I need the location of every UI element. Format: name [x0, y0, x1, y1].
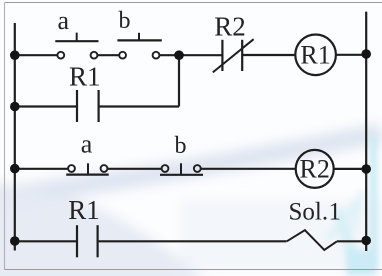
- solenoid Sol.1 (zigzag): [287, 230, 337, 250]
- node: left rail branch: [10, 102, 20, 112]
- svg-text:a: a: [81, 129, 93, 158]
- wire rung2: contact a to contact b: [108, 168, 162, 170]
- wire rung3: contact R1 to solenoid: [98, 240, 287, 242]
- svg-text:R1: R1: [69, 61, 101, 91]
- node: left rail rung3: [10, 236, 20, 246]
- relay contact R1 (NO) on branch: [77, 90, 99, 122]
- node: left rail rung1: [10, 50, 20, 60]
- svg-text:R2: R2: [300, 155, 330, 184]
- wire rung2: contact b to coil R2: [201, 168, 295, 170]
- node: right rail rung3: [361, 236, 371, 246]
- wire rung1: coil R1 to right rail: [336, 54, 366, 56]
- pushbutton contact b (NO): [117, 33, 161, 59]
- wire branch: contact R1 to junction drop: [99, 105, 179, 107]
- svg-text:a: a: [58, 6, 70, 35]
- svg-text:R2: R2: [214, 11, 246, 41]
- svg-text:R1: R1: [300, 41, 330, 70]
- pushbutton contact a (NO): [55, 33, 98, 59]
- wire rung3: left rail to contact R1: [15, 240, 77, 242]
- node: rung1 branch junction: [174, 50, 184, 60]
- wire rung1: R2 contact to coil R1: [242, 54, 295, 56]
- right power rail: [365, 12, 367, 251]
- wire rung2: coil R2 to right rail: [334, 168, 366, 170]
- wire rung2: left rail to contact a: [15, 168, 68, 170]
- svg-text:Sol.: Sol.: [289, 199, 329, 226]
- left power rail: [14, 23, 16, 251]
- limit contact b (NO) on rung2: [160, 163, 203, 175]
- wire branch: left rail to contact R1: [15, 105, 77, 107]
- svg-text:b: b: [175, 133, 187, 159]
- wire rung1: contact b to R2 contact: [160, 54, 223, 56]
- relay contact R2 (NC) on rung1: [213, 39, 254, 72]
- wire rung1: contact a to contact b: [98, 54, 120, 56]
- wire rung1: left rail to contact a: [15, 54, 58, 56]
- limit contact a (NO) on rung2: [66, 163, 109, 174]
- wire rung3: solenoid to right rail: [337, 240, 366, 242]
- relay contact R1 (NO) on rung3: [77, 225, 98, 257]
- svg-text:R1: R1: [68, 195, 100, 225]
- node: right rail rung1: [361, 49, 371, 59]
- wire: rung1 junction drop to parallel branch: [178, 55, 180, 106]
- coil R1: [295, 35, 336, 76]
- svg-text:1: 1: [329, 199, 342, 226]
- node: right rail rung2: [361, 164, 371, 174]
- svg-text:b: b: [119, 8, 131, 34]
- coil R2: [296, 150, 334, 188]
- node: left rail rung2: [10, 164, 20, 174]
